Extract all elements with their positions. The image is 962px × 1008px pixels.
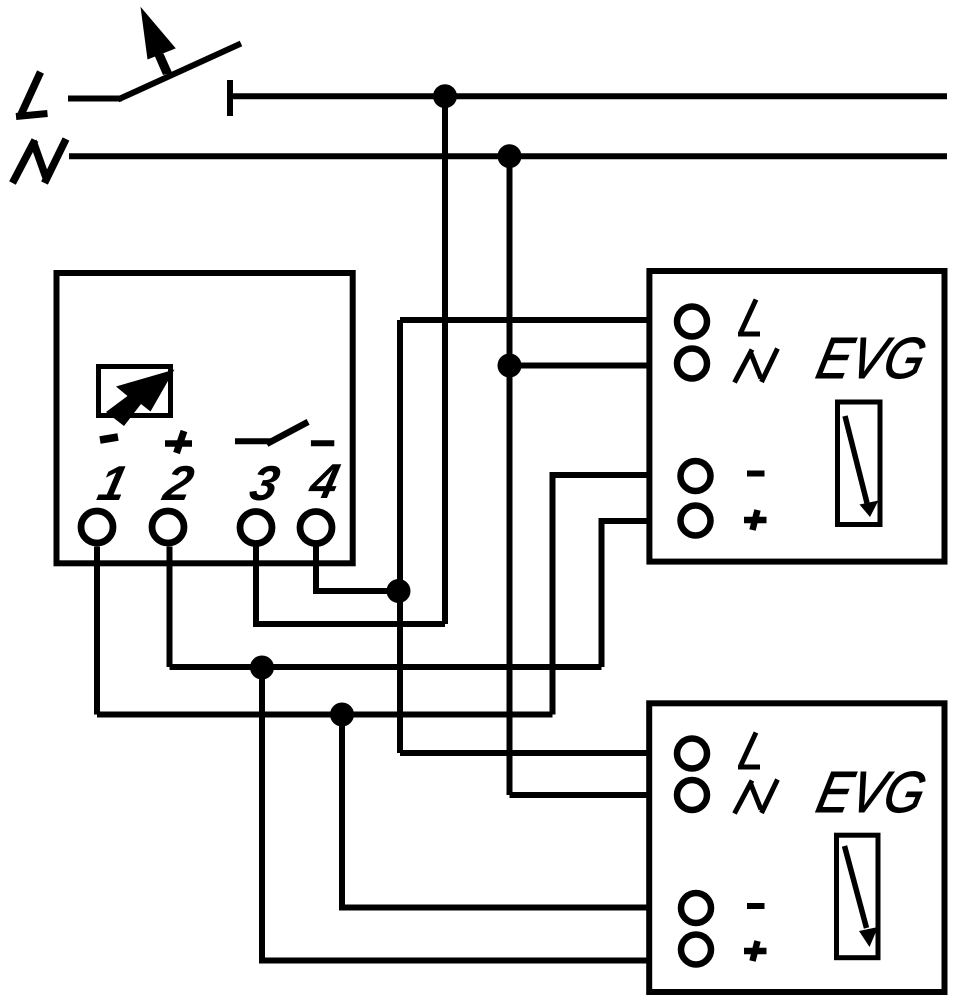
terminal 2 — [152, 511, 184, 543]
label plus EVG2 — [744, 941, 767, 961]
label minus (terminal 1) — [100, 437, 118, 440]
pin 4 label — [304, 454, 345, 509]
terminal 1 — [81, 511, 113, 543]
wire terminal 3 to switched-L — [256, 547, 445, 625]
wire EVG1 minus — [553, 475, 651, 715]
potentiometer symbol — [99, 367, 171, 416]
wire EVG2 N stub — [510, 792, 651, 798]
terminal 4 — [300, 512, 332, 544]
wire minus bus horizontal — [97, 712, 553, 718]
ballast EVG2 box — [649, 703, 944, 992]
node L junction — [433, 84, 457, 108]
wire terminal 2 to plus bus — [167, 547, 173, 668]
wire EVG1 N stub — [510, 363, 651, 369]
wire plus bus horizontal — [170, 664, 602, 670]
label N EVG1 — [735, 349, 778, 383]
node N junction — [498, 144, 522, 168]
terminal L EVG1 — [677, 307, 707, 337]
wire plus bus down to EVG2 — [262, 668, 650, 961]
pin 1 label — [93, 456, 133, 511]
label L EVG2 — [741, 733, 756, 766]
wire minus bus down to EVG2 — [342, 715, 650, 908]
wire terminal 4 to lamp-L bus — [316, 547, 399, 592]
terminal minus EVG1 — [681, 461, 711, 491]
terminal N EVG1 — [677, 349, 707, 379]
label L (mains line) — [21, 72, 41, 115]
wire L line — [230, 93, 947, 99]
svg-text:EVG: EVG — [811, 327, 932, 391]
label L EVG1 — [741, 300, 756, 333]
switch S1 blade — [118, 44, 241, 100]
node plus bus junction — [250, 656, 274, 680]
switch symbol (terminals 3-4) — [235, 441, 334, 443]
terminal minus EVG2 — [681, 893, 711, 923]
label plus (terminal 2) — [165, 440, 192, 447]
wire N line — [69, 153, 947, 159]
dimmer control unit box — [57, 273, 353, 563]
label minus EVG1 — [747, 471, 765, 477]
terminal plus EVG1 — [681, 506, 711, 536]
node N to EVG1 junction — [498, 354, 522, 378]
wire lamp-L bus vertical — [397, 320, 403, 753]
label EVG1 — [811, 327, 932, 391]
wire switched-L vertical — [442, 96, 448, 624]
terminal plus EVG2 — [681, 935, 711, 965]
label EVG2 — [811, 761, 932, 825]
pin 3 label — [245, 456, 285, 511]
wire L stub — [68, 96, 122, 102]
label minus EVG2 — [747, 903, 765, 909]
wire EVG1 plus — [602, 521, 651, 667]
switch S1 actuation arrow — [141, 7, 176, 75]
wire EVG2 L stub — [400, 750, 650, 756]
terminal N EVG2 — [677, 780, 707, 810]
label plus EVG1 — [744, 510, 767, 530]
node minus bus junction — [330, 703, 354, 727]
potentiometer arrow — [106, 370, 175, 427]
terminal 3 — [240, 512, 272, 544]
lamp symbol EVG2 — [837, 835, 879, 958]
wire terminal 1 to minus bus — [94, 547, 100, 715]
switch S1 fixed contact — [227, 80, 233, 116]
wire EVG1 L stub — [400, 317, 650, 323]
svg-text:EVG: EVG — [811, 761, 932, 825]
wire N bus vertical — [507, 156, 513, 795]
node lamp-L junction — [387, 579, 411, 603]
lamp symbol EVG1 — [838, 402, 881, 525]
ballast EVG1 box — [649, 271, 944, 562]
label N EVG2 — [735, 780, 778, 814]
pin 2 label — [158, 456, 199, 511]
label N (mains line) — [13, 139, 67, 183]
terminal L EVG2 — [677, 739, 707, 769]
